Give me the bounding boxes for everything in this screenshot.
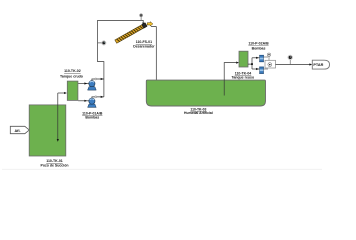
wire suction manifold from TK-04 (248, 58, 253, 69)
label desarenador (133, 40, 155, 48)
wire suction pump 02B (252, 68, 259, 70)
tank 110-TK-01 Pozo de Succion (29, 105, 68, 167)
wire suction pump A (78, 82, 88, 84)
pump P-01A (88, 81, 97, 91)
pump P-01B (88, 98, 97, 107)
label bombas 110-P-01A/B (82, 111, 103, 119)
wire discharge pump B (92, 96, 104, 98)
instrument bubble on PTAR line (288, 55, 293, 64)
svg-text:110-P-02A/B: 110-P-02A/B (248, 42, 269, 46)
tank 110-TK-02 Tanque crudo (60, 69, 83, 100)
wire pozo to tanque crudo (58, 92, 67, 94)
svg-text:PTAR: PTAR (313, 63, 323, 67)
svg-text:Bombas: Bombas (85, 115, 99, 119)
svg-text:Bombas: Bombas (252, 47, 266, 51)
node Afl (off-page connector) (10, 126, 29, 133)
tank 110-TK-03 Humedal Artificial (146, 80, 265, 115)
pump P-02A (259, 55, 264, 62)
svg-text:110-TK-04: 110-TK-04 (235, 71, 252, 75)
wire suction pump B (78, 100, 88, 102)
vent circle above feed line (140, 14, 143, 21)
tank 110-TK-04 Tanque reuso (231, 51, 254, 79)
wire suction pump 02A (252, 57, 259, 59)
wire header to desarenador (98, 20, 145, 97)
screw screen 110-FS-01 Desarenador (115, 23, 147, 44)
svg-text:Afl.: Afl. (14, 129, 20, 133)
svg-text:Humedal Artificial: Humedal Artificial (184, 111, 213, 115)
meter box with gauges (265, 53, 276, 68)
node PTAR terminator (312, 60, 329, 69)
instrument bubble on header (98, 41, 106, 45)
wire humedal to tanque reuso (224, 62, 239, 96)
wire drop into pozo (57, 93, 59, 142)
svg-text:Tanque crudo: Tanque crudo (60, 74, 83, 78)
wire to PTAR (276, 63, 313, 65)
wires pumps to meter box (264, 57, 269, 69)
svg-text:Tanque reuso: Tanque reuso (231, 76, 254, 80)
label bombas 110-P-02A/B (248, 42, 269, 51)
wire screen to humedal (151, 27, 157, 89)
faint bottom rule (2, 168, 322, 170)
discharge arrow of screen (147, 22, 153, 27)
svg-text:Desarenador: Desarenador (133, 44, 155, 48)
svg-text:110-TK-02: 110-TK-02 (64, 69, 81, 73)
wire discharge pump A (92, 78, 104, 81)
svg-text:Pozo de Succión: Pozo de Succión (40, 163, 68, 167)
pump P-02B (259, 67, 264, 74)
